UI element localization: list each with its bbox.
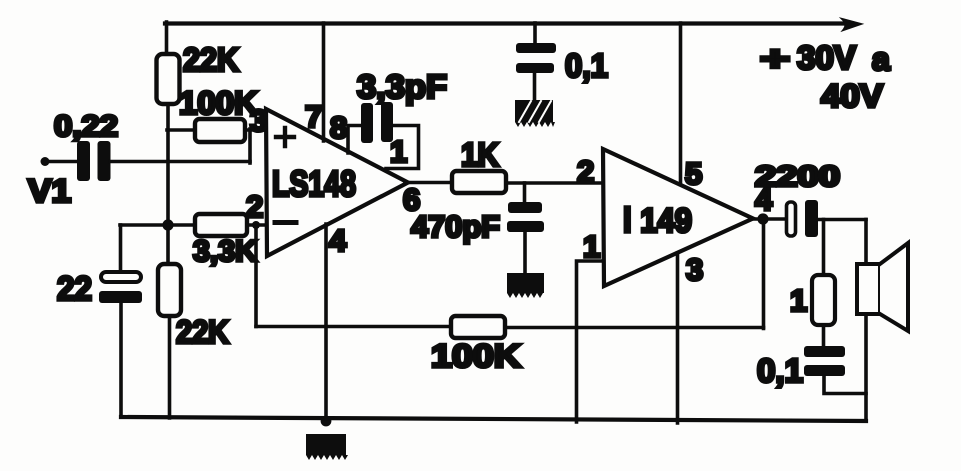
resistor R 100K (feedback) xyxy=(451,316,505,338)
wire: R 22K bottom to ground rail xyxy=(168,316,172,418)
svg-text:1: 1 xyxy=(790,283,807,318)
wire: divider column to R 100K xyxy=(167,128,196,132)
wire: stub down to C 470pF xyxy=(523,183,527,203)
svg-text:V1: V1 xyxy=(28,173,71,209)
ground symbol (below C 470pF) xyxy=(507,273,544,298)
wire: down to C 22 plus plate xyxy=(119,225,123,271)
wire: output to C 2200 xyxy=(753,217,787,221)
svg-text:0,1: 0,1 xyxy=(565,47,608,84)
wire: pin 1 stub to ground rail xyxy=(577,261,604,422)
svg-text:3,3pF: 3,3pF xyxy=(357,68,447,105)
svg-text:l 149: l 149 xyxy=(623,202,692,240)
svg-text:100K: 100K xyxy=(179,85,258,121)
svg-text:+: + xyxy=(760,40,790,78)
node: divider junction dot xyxy=(162,219,173,230)
wire: C 2200 to speaker xyxy=(818,218,866,222)
resistor R 1 (zobel) xyxy=(812,275,835,325)
resistor R 22K (bottom left) xyxy=(158,264,181,316)
wire: riser up to pin 3 net xyxy=(248,129,252,163)
wire: C 22 to bottom ground rail xyxy=(119,303,123,417)
wire: C 0,1 to ground xyxy=(533,73,537,101)
svg-text:LS148: LS148 xyxy=(272,163,356,204)
wire: feedback run from R 100K to output column xyxy=(505,326,764,330)
wire: R 100K to op-amp pin 3 xyxy=(245,128,266,132)
speaker LS1 horn xyxy=(880,243,908,331)
svg-text:2: 2 xyxy=(577,154,594,189)
svg-text:40V: 40V xyxy=(821,78,884,114)
svg-text:2200: 2200 xyxy=(755,161,840,193)
svg-text:3: 3 xyxy=(250,103,267,138)
wire: C 3,3pF loop to pin 1 xyxy=(386,126,419,169)
capacitor C 22 minus plate xyxy=(99,291,142,303)
svg-text:22K: 22K xyxy=(183,41,239,78)
resistor R 22K (top left) xyxy=(157,54,180,104)
op-amp U2 L149 power amp triangle xyxy=(603,149,753,286)
wire: pin 4 down to ground rail xyxy=(324,224,328,423)
wire: bottom ground rail xyxy=(121,417,866,421)
wire: divider junction down to R 22K bottom xyxy=(166,225,170,265)
wire: pin 3 down to ground rail xyxy=(676,253,680,423)
svg-text:470pF: 470pF xyxy=(411,209,500,244)
capacitor C 470pF xyxy=(507,202,544,232)
svg-text:30V: 30V xyxy=(797,39,856,76)
wire: speaker bottom to ground rail xyxy=(864,314,868,421)
resistor R 3,3K (to pin 2) xyxy=(195,214,247,236)
node: input terminal V1 dot xyxy=(41,157,50,166)
svg-text:a: a xyxy=(872,41,890,77)
svg-text:1: 1 xyxy=(390,134,407,169)
node: pin 2 feedback junction dot xyxy=(252,221,260,229)
resistor R 100K (bias, to pin 3) xyxy=(195,119,245,142)
wire: supply rail stub to C 0,1 xyxy=(533,23,537,45)
node: output junction dot xyxy=(757,213,768,224)
label plus input sign xyxy=(276,128,294,146)
wire: pin 5 stub from supply rail xyxy=(679,23,683,186)
svg-text:22K: 22K xyxy=(176,314,229,350)
svg-text:0,22: 0,22 xyxy=(54,110,118,143)
wire: zobel branch down to R 1 xyxy=(822,220,826,277)
svg-text:4: 4 xyxy=(329,223,347,258)
wire: C 0,22 to pin3 riser (crosses divider column) xyxy=(110,160,250,164)
wire: feedback drop from pin 2 xyxy=(254,225,258,327)
wire: divider column from R1 down to junction xyxy=(166,104,170,226)
ground symbol (main, below rail) xyxy=(306,434,348,460)
wire: pin 8 stub to C 3,3pF xyxy=(348,126,362,154)
wire: feedback run to R 100K feedback xyxy=(256,325,452,329)
wire: left column from rail to R1 xyxy=(165,22,169,56)
node: supply rail arrow terminal xyxy=(843,20,860,30)
wire: op-amp output to R 1K xyxy=(405,181,453,185)
wire: R 3,3K to op-amp pin 2 xyxy=(247,223,266,227)
wire: C 0,1 zobel to speaker return xyxy=(824,376,866,394)
node: pin 4 ground junction dot xyxy=(321,416,332,427)
svg-text:1K: 1K xyxy=(461,136,499,173)
speaker LS1 body xyxy=(857,264,880,314)
wire: C 470pF to ground xyxy=(523,232,527,274)
capacitor C 0,1 (zobel) xyxy=(804,346,845,376)
svg-text:22: 22 xyxy=(57,270,92,308)
capacitor C 3,3pF (compensation) xyxy=(361,102,393,143)
svg-text:2: 2 xyxy=(246,189,263,224)
wire: pin 7 stub from supply rail xyxy=(322,23,326,141)
wire: input terminal to C 0,22 xyxy=(45,160,77,164)
svg-text:3: 3 xyxy=(686,252,703,287)
capacitor C 2200 (output electrolytic) plus plate xyxy=(787,202,796,236)
wire: R 1 to C 0,1 zobel xyxy=(822,325,826,347)
svg-text:100K: 100K xyxy=(431,338,521,374)
wire: down to speaker top xyxy=(864,220,868,266)
ground symbol (below C 0,1) xyxy=(515,100,555,127)
svg-text:3,3K: 3,3K xyxy=(193,235,257,268)
resistor R 1K xyxy=(452,171,506,193)
wire: junction left to C 22 xyxy=(120,223,168,227)
svg-text:5: 5 xyxy=(685,156,702,191)
capacitor C 2200 minus plate xyxy=(805,200,818,237)
svg-text:0,1: 0,1 xyxy=(757,352,803,389)
capacitor C 0,22 input coupling xyxy=(77,141,111,181)
wire: +30V supply top rail xyxy=(165,21,852,25)
op-amp U1 LS148 triangle xyxy=(266,109,408,256)
wire: R 1K to L149 pin 2 xyxy=(506,181,602,185)
svg-text:1: 1 xyxy=(583,229,600,264)
capacitor C 0,1 (supply decoupling) xyxy=(516,43,556,73)
wire: junction right to R 3,3K xyxy=(168,223,196,227)
svg-text:7: 7 xyxy=(305,99,322,134)
svg-text:8: 8 xyxy=(330,110,347,145)
label minus input sign xyxy=(275,220,296,225)
capacitor C 22 (electrolytic) plus plate xyxy=(101,272,141,282)
wire: feedback column up to L149 output xyxy=(762,219,766,329)
